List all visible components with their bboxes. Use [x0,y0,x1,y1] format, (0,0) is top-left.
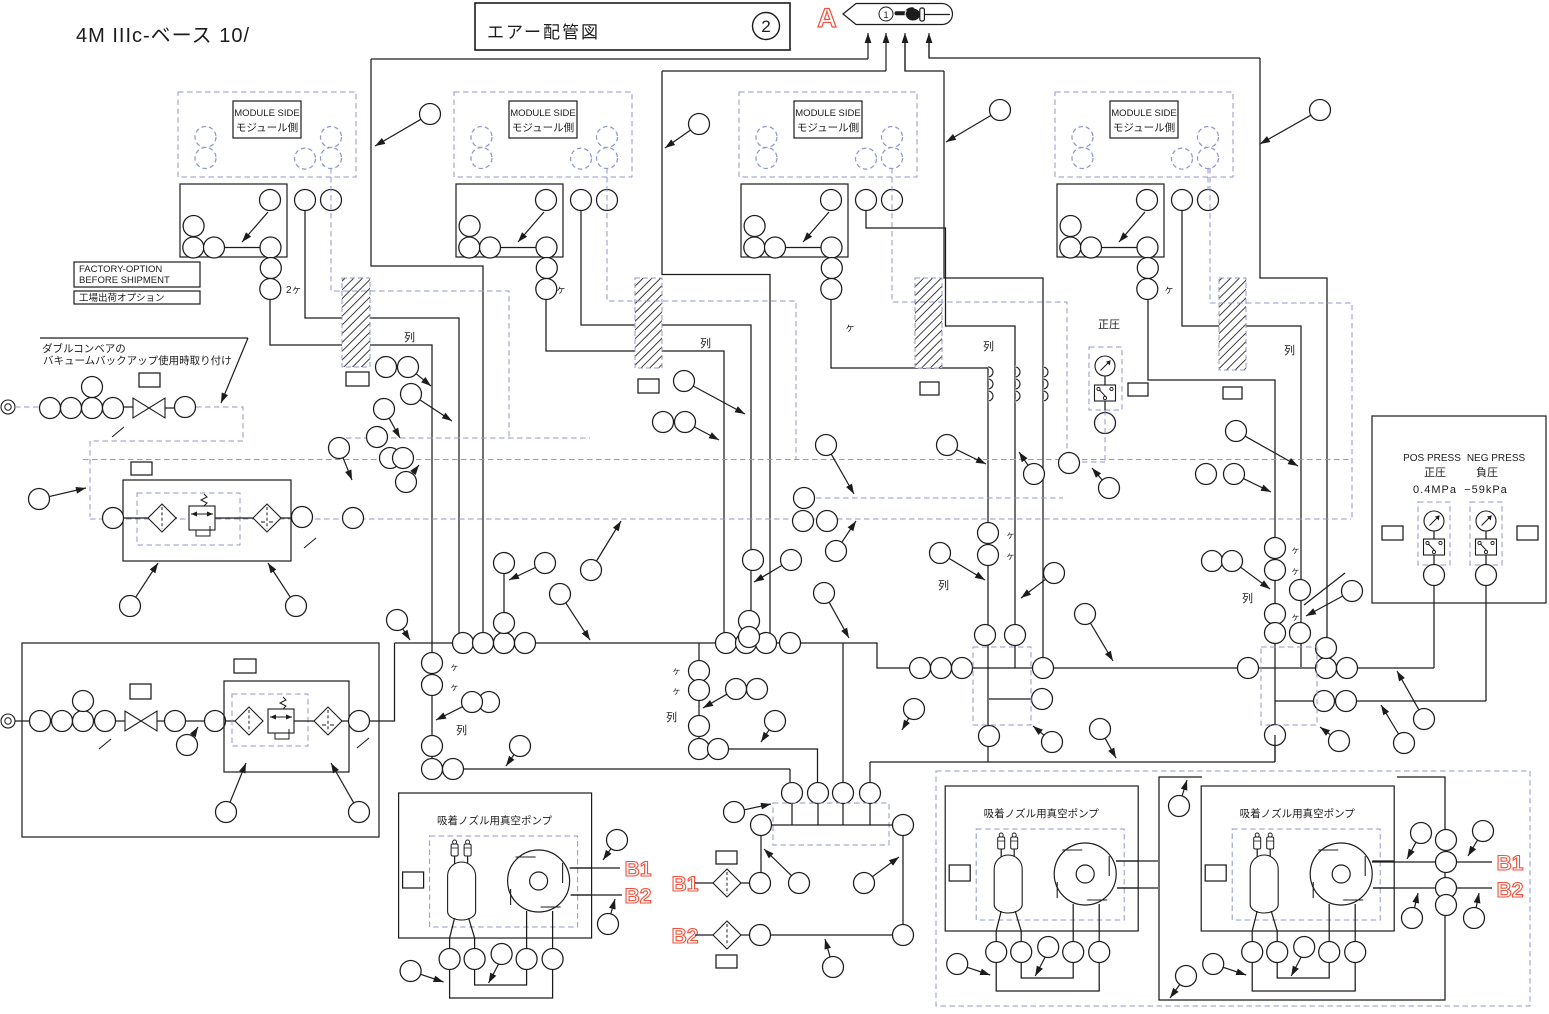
callout [581,560,602,581]
connector tag 3b [1128,383,1148,396]
hatched wall 1 [342,278,370,367]
assembly 1 pipe [165,407,174,409]
svg-text:4M IIIc-ベース 10/: 4M IIIc-ベース 10/ [76,25,250,47]
trunk fitting [1033,658,1054,679]
connector tag 1 [346,372,369,386]
svg-text:2ヶ: 2ヶ [286,285,302,296]
B2 wire [741,934,749,936]
connector tag 4 [1223,387,1242,399]
module 2 dashed port [571,148,592,169]
module 1 dashed port [195,148,216,169]
trunk fitting [1314,691,1335,712]
callout under unit 1 [286,596,307,617]
column fitting [1265,560,1286,581]
callout at pump3 bottom [1176,966,1197,987]
callout to module 2 feed [689,114,710,135]
assembly 1 pipe [50,406,133,408]
svg-text:吸着ノズル用真空ポンプ: 吸着ノズル用真空ポンプ [984,807,1100,820]
module 1 dashed enclosure [178,92,356,177]
callout [396,472,417,493]
svg-text:ヶ: ヶ [1006,530,1015,540]
column fitting [708,739,729,760]
svg-text:モジュール側: モジュール側 [797,121,859,134]
module 4 internal pipe [1091,247,1148,249]
callout [904,699,925,720]
callout pair [398,357,419,378]
trunk fitting [1316,638,1337,659]
callout [535,553,556,574]
module 1 dashed port [295,148,316,169]
module 1 fitting [260,279,281,300]
module 4 fitting [1137,237,1158,258]
manifold riser [869,762,871,782]
manifold fitting [860,783,881,804]
gauge assembly dashed box [1089,347,1122,410]
column fitting [422,653,443,674]
bottom trunk wire [870,761,1275,763]
module 1 fitting [183,216,204,237]
gauge panel fitting [1476,565,1497,586]
fitting [343,508,364,529]
module 4 dashed port [1072,148,1093,169]
callout [765,711,786,732]
manifold b2 drop [902,836,904,925]
module 3 pointer [803,212,829,242]
hand valve [133,398,149,418]
module 3 dashed drop [891,168,893,190]
fitting [73,691,94,712]
module 3 fitting [765,237,786,258]
svg-text:ヶ: ヶ [450,682,459,692]
pump1 B1 wire [570,867,620,869]
inlet wire 2 [15,720,30,722]
module 4 dashed envelope [1210,168,1352,519]
filter regulator unit 1 frame [123,480,291,561]
assembly 2 pipe [157,720,165,722]
svg-text:負圧: 負圧 [1476,466,1498,479]
fitting [494,553,515,574]
module 2 fitting [480,237,501,258]
unit 1 pipe [124,517,148,519]
hatched wall 4 [1219,278,1246,370]
fitting [205,711,226,732]
module 4 dashed port [1198,148,1219,169]
callout [781,550,802,571]
hatched wall 3 [915,278,942,368]
module 1 dashed envelope [331,168,509,438]
pump 3 muffler b [1267,837,1274,849]
column wire [503,573,505,612]
module 2 dashed enclosure [454,92,632,177]
column fitting [689,661,710,682]
module 4 fitting [1060,216,1081,237]
module 4 column dashed box [1261,647,1317,725]
callout [1473,821,1494,842]
fitting [739,611,760,632]
pump 1 inner U pipe [475,969,527,985]
filter F2 [253,504,281,532]
pump 2 muffler drops [1000,849,1002,859]
module 3 dashed port [856,148,877,169]
svg-text:列: 列 [1284,343,1295,357]
module 2 internal pipe [490,247,547,249]
hose crossover bumps [988,367,993,377]
module 4 fitting [1137,279,1158,300]
module 3 MODULE SIDE label [794,101,862,138]
svg-text:ダブルコンベアの: ダブルコンベアの [42,342,126,355]
column wire [987,746,989,762]
branch y699 [989,698,1032,700]
callout [329,438,350,459]
gauge connection [1104,376,1106,385]
module 3 dashed port [882,148,903,169]
column fitting [422,759,443,780]
pump 3 fitting [1319,942,1340,963]
fitting [82,398,103,419]
module 3 fitting [821,258,842,279]
reference banner with pointing hand [843,4,953,25]
tag [716,955,737,968]
assembly 2 outer frame [22,643,379,837]
callout to module 4 feed [1310,100,1331,121]
module 2 fitting [536,279,557,300]
callout [1042,732,1063,753]
pump 3 muffler a [1254,837,1261,849]
svg-text:列: 列 [700,336,711,350]
dashed bus y519 [90,518,1351,520]
pump 2 inner U pipe [1021,962,1073,978]
module 4 riser wire a [1182,210,1301,667]
fitting B2 end [893,925,914,946]
gauge panel drop wires [1433,585,1435,668]
svg-text:MODULE SIDE: MODULE SIDE [795,108,860,119]
callout under unit 1 [120,596,141,617]
filter unit 1 dashed [137,493,240,545]
pump 3 U pipe [1252,962,1355,991]
callout pair [726,679,747,700]
pump 3 fitting [1294,937,1315,958]
vacuum pump unit 2 frame [945,786,1138,931]
pump 2 fitting [1038,937,1059,958]
B1 wire [741,882,749,884]
module 3 fitting [744,216,765,237]
check valve B2 [713,921,741,949]
trunk fitting [780,633,801,654]
fitting near gauge [1059,453,1080,474]
NEG gauge [1476,511,1496,531]
vacuum pump unit 1 frame [399,793,592,938]
gauge drop wire [1104,401,1106,413]
svg-text:ヶ: ヶ [1291,612,1300,622]
callout pair [1222,551,1243,572]
svg-text:正圧: 正圧 [1098,319,1120,331]
column fitting [1265,538,1286,559]
column fitting [1005,625,1026,646]
pump 1 muffler drops [454,856,456,866]
manifold drop [842,804,844,826]
module 3 dashed port [756,148,777,169]
tag [234,659,256,673]
module 3 dashed port [756,127,777,148]
pump 1 dashed box [430,836,578,927]
svg-text:MODULE SIDE: MODULE SIDE [510,108,575,119]
callout under unit 2 [349,802,370,823]
pump 1 vacuum tank [448,862,476,920]
svg-text:ヶ: ヶ [672,686,681,696]
fitting [817,511,838,532]
svg-text:モジュール側: モジュール側 [236,121,298,134]
callout [1394,733,1415,754]
callout [826,541,847,562]
pump 2 muffler b [1011,837,1018,849]
callout pair to column [462,692,483,713]
gauge dashed drop [1104,410,1106,462]
hatched wall 2 [635,278,662,368]
svg-text:吸着ノズル用真空ポンプ: 吸着ノズル用真空ポンプ [437,814,553,827]
pump 1 drain pointer [489,964,499,983]
pump 1 rotary pump [508,850,570,912]
filter regulator unit 2 frame [224,681,349,772]
callout to B2 wire [823,957,844,978]
svg-text:ヶ: ヶ [1006,551,1015,561]
column fitting [1265,725,1286,746]
pump 3 inner U pipe [1277,962,1329,978]
callout [1464,908,1485,929]
pump 3 outlet wires [1372,860,1394,862]
manifold fitting [808,783,829,804]
pump 1 outlet wires [570,867,592,869]
callout [1090,719,1111,740]
module 1 riser pipe [270,257,272,300]
svg-text:B1: B1 [625,858,652,881]
svg-text:列: 列 [1242,591,1253,605]
svg-text:B1: B1 [672,873,699,896]
connector tag 2 [638,379,659,393]
wire arrow to banner 4 [928,33,930,58]
gauge dashed elbow [1073,461,1105,463]
branch fitting [1032,689,1053,710]
module 2 fitting [536,190,557,211]
module 3 fitting [821,237,842,258]
svg-text:ヶ: ヶ [672,666,681,676]
trunk fitting [1336,691,1357,712]
pump 3 outer wire loop [1159,777,1445,1000]
wire feed 4 drop [1260,58,1327,667]
pump 2 drain pointer [1035,957,1045,976]
svg-text:2: 2 [761,17,770,36]
pressure switch [1095,385,1116,401]
manifold drop [791,804,793,826]
module 4 fitting [1081,237,1102,258]
pump 3 callout [1203,954,1224,975]
callout [1024,464,1045,485]
module 2 riser pipe [546,257,548,300]
fitting [1436,830,1457,851]
pump 1 fitting [542,949,563,970]
regulator [268,709,294,733]
wire feed 1 horizontal [371,58,868,60]
callout at pump3 corner [1169,796,1190,817]
module 3 internal pipe [775,247,832,249]
callout to module 3 feed [990,100,1011,121]
callout to trunk [550,584,571,605]
unit 2 pipe [294,720,314,722]
module 3 dashed enclosure [739,92,917,177]
callout [1044,563,1065,584]
note leader line [40,337,248,339]
column fitting [689,739,710,760]
fitting [61,398,82,419]
fitting [1436,878,1457,899]
module 2 fitting [459,216,480,237]
callout [1226,421,1247,442]
module 3 riser wire b [831,300,988,736]
assembly 2 pipe [40,720,125,722]
title box [475,3,790,50]
module 4 fitting [1060,237,1081,258]
pump 3 drain pointer [1291,957,1301,976]
assembly 2 pipe [186,720,205,722]
module 3 fitting [821,279,842,300]
POS gauge [1424,511,1444,531]
gauge wires [1433,531,1435,539]
module 2 dashed envelope [607,168,796,459]
svg-text:MODULE SIDE: MODULE SIDE [234,108,299,119]
module 3 dashed port [882,127,903,148]
filter unit 2 dashed [232,694,308,746]
callout [374,399,395,420]
pump 3 muffler drops [1256,849,1258,859]
callout [674,371,695,392]
module 4 dashed port [1172,148,1193,169]
callout [1414,709,1435,730]
svg-text:1: 1 [883,10,888,20]
module 1 dashed port [195,127,216,148]
bottom right dashed option box [936,771,1530,1006]
module 4 riser pipe [1147,257,1149,300]
callout [854,873,875,894]
pump 2 fitting [986,942,1007,963]
module 4 fitting block [1057,184,1164,257]
vacuum pump unit 3 frame [1201,786,1394,931]
svg-text:工場出荷オプション: 工場出荷オプション [79,292,165,304]
svg-text:B2: B2 [672,925,699,948]
svg-text:FACTORY-OPTION: FACTORY-OPTION [79,264,162,275]
manifold b1 drop [760,836,762,873]
fitting [349,711,370,732]
fitting [380,448,401,469]
fitting [82,377,103,398]
connector tag 3 [920,382,939,395]
dashed route to filter [90,407,243,517]
tag [139,373,160,387]
pump 2 muffler a [998,837,1005,849]
module 1 fitting block [180,184,287,257]
fitting [1202,551,1223,572]
svg-text:ヶ: ヶ [1164,285,1174,296]
fitting [393,448,414,469]
pump 1 muffler a [451,844,458,856]
pump2 outlet wires [1116,860,1158,862]
callout on pipe [177,735,198,756]
tag [131,462,152,475]
module 1 fitting [260,237,281,258]
trunk fitting [473,633,494,654]
module 4 fitting [1198,190,1219,211]
fitting [743,550,764,571]
trunk fitting [910,658,931,679]
gauge wire [1433,555,1435,565]
dashed bus y459 [83,459,1351,461]
wire feed 1 drop [371,59,483,643]
trunk fitting [494,633,515,654]
callout to trunk [814,583,835,604]
svg-text:列: 列 [938,578,949,592]
callout [401,384,422,405]
module 1 riser wire b [270,300,432,770]
fitting [292,507,313,528]
module 1 fitting [204,237,225,258]
callout [1329,731,1350,752]
module 4 pointer [1119,212,1145,242]
module 2 dashed port [471,148,492,169]
module 1 dashed port [321,148,342,169]
pressure gauge panel frame [1372,416,1546,603]
column fitting [978,523,999,544]
module 2 dashed port [471,127,492,148]
pump 1 fitting [491,944,512,965]
manifold end fitting [751,815,772,836]
tag [716,851,737,864]
module 1 fitting [183,237,204,258]
pump 2 tank drain pipes [996,911,1001,942]
pump 3 dashed box [1232,829,1380,920]
fitting [494,613,515,634]
gauge fitting [1095,413,1116,434]
column fitting [689,716,710,737]
inlet dashed wire [15,406,40,408]
trunk fitting [453,633,474,654]
POS gauge dashed box [1418,502,1450,565]
svg-text:B1: B1 [1497,852,1524,875]
unit 2 pipe [342,720,348,722]
callout to manifold [724,802,745,823]
B2 wire [771,934,893,936]
sheet number circled 2 [753,13,780,40]
pump 3 vacuum tank [1250,855,1278,913]
svg-text:ヶ: ヶ [450,662,459,672]
panel tag left [1382,526,1403,540]
module 1 internal pipe [214,247,271,249]
branch wire into manifold [789,769,791,782]
manifold drop [869,804,871,826]
callout [789,873,810,894]
module 1 MODULE SIDE label [233,101,301,138]
module 4 dashed enclosure [1055,92,1233,177]
pump 2 U pipe [996,962,1099,991]
module 4 dashed port [1198,127,1219,148]
pump 3 rotary pump [1310,843,1372,905]
module 4 MODULE SIDE label [1110,101,1178,138]
pressure switch [1424,539,1445,555]
module 1 riser wire a [305,210,459,643]
callout [937,435,958,456]
column fitting [422,736,443,757]
pump 2 dashed box [976,829,1124,920]
pump 3 tank drain pipes [1252,911,1257,942]
fitting [30,711,51,732]
pump 1 tag [403,872,424,888]
